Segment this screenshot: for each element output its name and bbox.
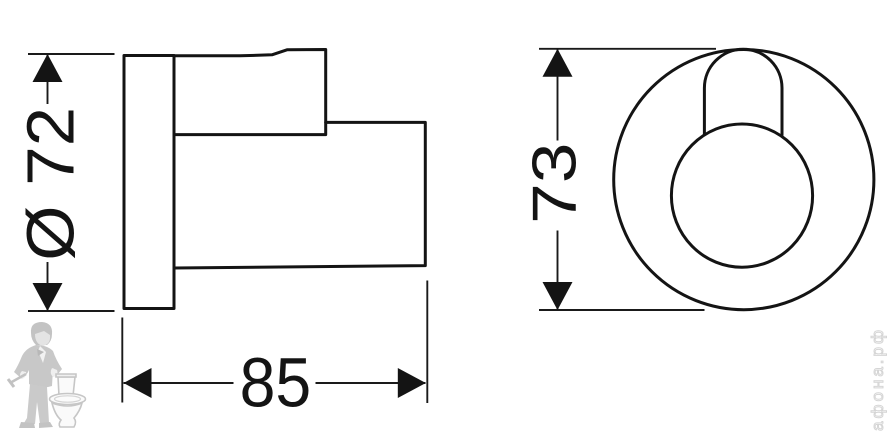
svg-text:85: 85 <box>240 344 312 422</box>
svg-text:73: 73 <box>519 143 589 224</box>
svg-text:Ø 72: Ø 72 <box>13 107 88 261</box>
svg-text:афона.рф: афона.рф <box>868 327 887 431</box>
